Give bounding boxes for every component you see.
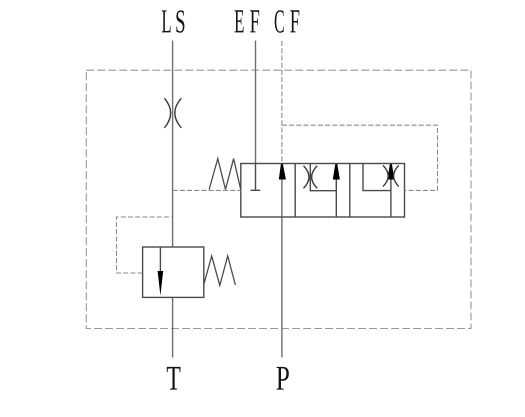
port label T	[167, 367, 181, 390]
position 1: P to CF flow arrow	[279, 164, 286, 180]
valve spring (left end of envelope)	[209, 159, 241, 190]
position 3: variable orifice arcs	[383, 165, 399, 186]
position 1: EF blocked port	[251, 164, 261, 191]
wire T vertical line	[172, 297, 174, 357]
relief valve internal flow line	[159, 247, 161, 272]
wire EF vertical line	[255, 41, 257, 164]
pilot line CF to valve right side (dashed)	[282, 125, 438, 190]
position 3: flow arrow head	[387, 164, 394, 180]
wire P vertical line	[281, 177, 283, 358]
port label CF	[275, 10, 300, 32]
position 2: flow arrow head	[333, 164, 340, 180]
relief valve pilot line (dashed)	[117, 217, 173, 273]
position 2: orifice arcs	[304, 166, 318, 189]
enclosure boundary (dashed manifold outline)	[86, 70, 471, 328]
position 3: flow path	[363, 164, 391, 218]
wire LS vertical line	[172, 41, 174, 248]
orifice on LS line	[164, 98, 181, 128]
position 2: flow path with orifice	[310, 164, 336, 218]
relief valve body	[143, 247, 204, 297]
relief valve spring (right side)	[204, 256, 236, 285]
pilot line LS to valve spring side (dashed)	[173, 189, 241, 191]
port label LS	[162, 10, 185, 32]
priority valve body (3 position envelope)	[241, 164, 405, 218]
pilot line CF vertical (dashed)	[281, 41, 283, 164]
relief valve internal flow arrow	[158, 271, 164, 296]
port label P	[277, 367, 289, 390]
port label EF	[235, 10, 260, 32]
